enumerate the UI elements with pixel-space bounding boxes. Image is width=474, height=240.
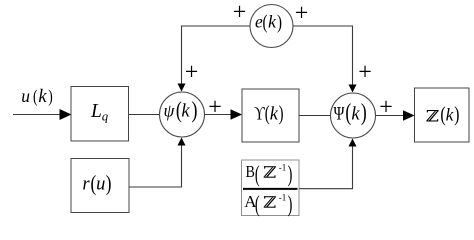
svg-text:+: +: [295, 1, 309, 27]
wire e(k) left branch to psi top: [182, 26, 251, 84]
wire input u(k): [13, 114, 61, 116]
wire Upsilon to Psi junction: [299, 115, 331, 117]
block Lq: [71, 87, 129, 142]
wire psi to Upsilon block: [205, 114, 232, 116]
svg-text:): ): [454, 103, 459, 127]
svg-text:Ψ: Ψ: [334, 103, 345, 124]
svg-text:(: (: [33, 87, 37, 106]
svg-text:): ): [192, 99, 198, 124]
svg-text:-1: -1: [279, 162, 287, 172]
svg-text:k: k: [351, 105, 360, 125]
block Z(k): [415, 88, 470, 142]
label Z(k): double-struck Z part: [426, 110, 438, 122]
svg-text:+: +: [379, 95, 393, 121]
arrowhead into Upsilon: [231, 109, 243, 120]
svg-text:ψ: ψ: [164, 101, 176, 121]
svg-text:k: k: [38, 87, 47, 107]
svg-text:u: u: [96, 175, 105, 195]
svg-text:+: +: [233, 0, 247, 26]
wire Lq to psi junction: [129, 114, 160, 116]
svg-text:k: k: [181, 102, 190, 122]
arrowhead into Z block: [403, 110, 415, 121]
svg-text:+: +: [185, 60, 199, 86]
summing node e(k): [250, 5, 293, 48]
arrowhead into psi top: [178, 84, 186, 92]
denominator double-struck Z: [264, 196, 276, 208]
block B(Z^-1)/A(Z^-1): [242, 160, 300, 216]
svg-text:-1: -1: [279, 192, 287, 202]
svg-text:): ): [279, 101, 284, 125]
label r(u): [82, 171, 111, 196]
svg-text:): ): [277, 10, 282, 33]
summing junction psi(k): [160, 92, 205, 137]
label Z(k): (k) part: [440, 103, 459, 127]
wire Psi to Z block: [376, 115, 404, 117]
arrowhead into Psi bottom: [349, 139, 357, 147]
svg-text:+: +: [358, 60, 372, 86]
svg-text:(: (: [345, 98, 351, 125]
label u(k): [21, 86, 53, 107]
arrowhead into Lq: [60, 109, 72, 120]
wire B/A block to Psi bottom: [299, 146, 353, 189]
svg-text:ϒ: ϒ: [254, 103, 265, 124]
arrowhead into psi bottom: [178, 138, 186, 146]
wire r(u) to psi bottom: [129, 145, 182, 187]
svg-text:(: (: [263, 10, 268, 33]
svg-text:): ): [106, 171, 112, 196]
label psi(k): [164, 99, 198, 124]
wire e(k) right branch to Psi top: [293, 26, 353, 85]
svg-text:): ): [288, 162, 293, 187]
summing junction Psi(k): [331, 93, 376, 138]
block r(u): [71, 159, 129, 213]
label Psi(k): [334, 98, 367, 125]
svg-text:r: r: [82, 175, 90, 195]
svg-text:): ): [288, 192, 293, 217]
svg-text:k: k: [270, 105, 279, 125]
svg-text:(: (: [255, 192, 260, 217]
svg-text:(: (: [255, 162, 260, 187]
svg-text:+: +: [208, 95, 222, 121]
fraction bar: [243, 188, 298, 190]
svg-text:k: k: [268, 12, 277, 32]
svg-text:k: k: [446, 105, 455, 125]
svg-text:): ): [361, 98, 367, 125]
svg-text:B: B: [246, 163, 255, 181]
block Upsilon(k): [242, 89, 299, 142]
arrowhead into Psi top: [349, 85, 357, 93]
svg-text:u: u: [21, 86, 30, 106]
numerator double-struck Z: [264, 166, 276, 178]
svg-text:): ): [48, 87, 52, 106]
label Upsilon(k): [254, 101, 283, 125]
label e(k): [255, 10, 282, 33]
